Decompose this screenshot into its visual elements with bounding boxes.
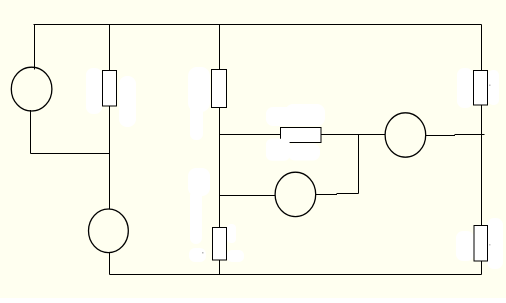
- wire: meter M1 right lead: [316, 194, 338, 196]
- resistor R5: [474, 226, 488, 262]
- wire: middle rail between R2 and R4: [219, 107, 221, 228]
- resistor R6 (horizontal): [281, 128, 322, 143]
- wire: rail from R1 down to source V2: [109, 106, 111, 209]
- wire: R6 right lead to node A: [321, 134, 386, 136]
- wire: lower-left horizontal: [31, 153, 110, 155]
- wire: node A drop: [358, 135, 360, 194]
- meter M1 (circle): [275, 172, 316, 216]
- wire: top-left drop to source V1: [34, 25, 36, 70]
- wire: rail below R4: [219, 260, 221, 275]
- wire: V1 bottom lead: [30, 110, 32, 154]
- wire: right rail between R3 and R5: [481, 105, 483, 226]
- wire: meter M1 right lead (outer half): [337, 193, 359, 195]
- source V1 (circle): [11, 67, 52, 111]
- meter M2 (circle): [385, 113, 426, 157]
- wire: branch to meter M1 left lead: [220, 195, 276, 197]
- wire: right rail below R5: [481, 261, 483, 275]
- wire: meter M2 right lead: [426, 135, 456, 137]
- wire: rail above R1: [109, 25, 111, 71]
- wire: rail above R2: [219, 25, 221, 70]
- wire: branch to R6 left lead: [220, 134, 281, 136]
- wire: top bus: [34, 24, 482, 26]
- resistor R3: [474, 71, 488, 106]
- wire: right rail above R3: [481, 25, 483, 71]
- wire: bottom bus: [110, 274, 482, 276]
- resistor R2: [212, 70, 227, 108]
- eraser patch over R6 corner: [266, 139, 290, 161]
- resistor R1: [103, 71, 117, 107]
- resistor R4: [213, 228, 227, 261]
- wire: V2 bottom lead: [109, 253, 111, 275]
- wire: meter M2 lead to right rail: [455, 134, 485, 136]
- source V2 (circle): [89, 209, 129, 253]
